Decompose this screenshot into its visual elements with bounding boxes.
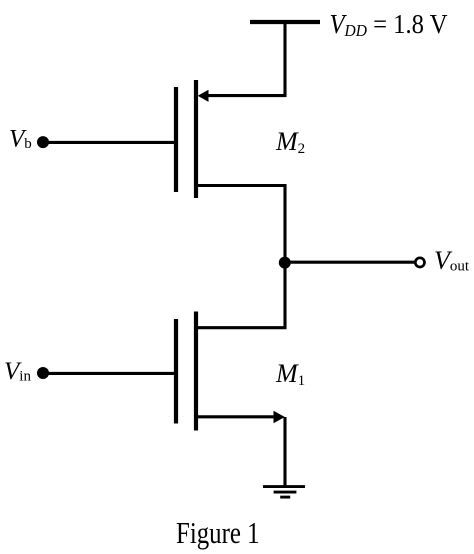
wire output node to Vout terminal [285, 261, 415, 264]
ground symbol bar 1 [263, 485, 305, 488]
terminal Vout open circle [415, 258, 424, 267]
node Vin terminal dot [37, 367, 49, 379]
wire output node to M1 drain [198, 265, 285, 328]
ground symbol bar 3 [280, 496, 290, 499]
wire M1 source corner down to ground [283, 417, 286, 487]
wire Vin to M1 gate [45, 372, 175, 375]
node output junction dot [279, 257, 291, 269]
power rail VDD bar [250, 20, 320, 24]
svg-text:Figure 1: Figure 1 [176, 515, 260, 550]
transistor M2 gate plate [174, 87, 178, 192]
transistor M1 channel plate [194, 312, 198, 431]
wire VDD rail to M2 source terminal [207, 23, 286, 96]
transistor M1 gate plate [174, 319, 178, 424]
node Vb terminal dot [37, 136, 49, 148]
arrow on M2 source (PMOS, points into channel) [198, 90, 209, 102]
ground symbol bar 2 [274, 491, 297, 494]
wire Vb to M2 gate [45, 141, 175, 144]
wire M2 drain to output node [198, 186, 285, 261]
transistor M2 channel plate [194, 80, 198, 198]
arrow on M1 source (NMOS, points away from channel) [274, 411, 285, 423]
wire M1 source to ground (horizontal run) [198, 415, 280, 418]
